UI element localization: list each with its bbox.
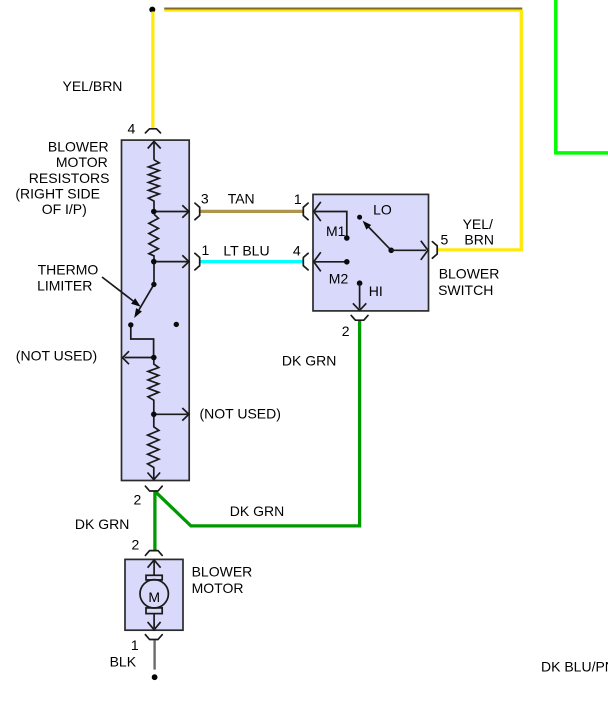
svg-text:MOTOR: MOTOR xyxy=(192,580,244,596)
resistor R4 element (zigzag 4) xyxy=(148,414,159,479)
switch block body xyxy=(313,194,429,311)
connector pin 2 resistor (bottom) xyxy=(145,486,162,491)
connector pin 2 switch (bottom) xyxy=(351,315,368,320)
svg-text:2: 2 xyxy=(132,537,140,553)
svg-text:2: 2 xyxy=(342,323,350,339)
svg-text:OF I/P): OF I/P) xyxy=(42,201,87,217)
connector pin 4 resistor (top) xyxy=(145,129,160,133)
node splice S1 (top junction dot) xyxy=(149,7,155,13)
pin 3 tap arrow xyxy=(154,211,188,213)
switch wiper arm xyxy=(369,227,392,250)
svg-text:HI: HI xyxy=(369,283,383,299)
svg-text:M2: M2 xyxy=(329,271,349,287)
switch M2 contact xyxy=(314,252,347,271)
svg-text:BLOWER: BLOWER xyxy=(48,138,109,154)
switch M1 contact xyxy=(314,202,347,238)
motor block body xyxy=(125,559,183,630)
motor exit arrow xyxy=(153,614,155,628)
svg-text:5: 5 xyxy=(441,231,449,247)
wire YEL/BRN right drop to switch pin 5 xyxy=(438,10,521,250)
svg-text:3: 3 xyxy=(201,190,209,206)
wire BLK motor pin 1 xyxy=(153,640,155,669)
svg-text:RESISTORS: RESISTORS xyxy=(29,170,110,186)
thermo limiter blade xyxy=(139,284,154,309)
connector pin 1 resistor (right) xyxy=(195,253,200,270)
wire YEL/BRN vertical drop to resistor pin 4 xyxy=(151,12,154,130)
svg-text:4: 4 xyxy=(128,121,136,137)
resistor R3 element (zigzag 3) xyxy=(148,358,159,415)
svg-text:4: 4 xyxy=(293,242,301,258)
svg-text:BLOWER: BLOWER xyxy=(439,266,500,282)
svg-text:LO: LO xyxy=(373,202,392,218)
switch HI contact xyxy=(357,280,363,286)
resistor R2 element (zigzag 2) xyxy=(149,214,159,261)
resistor block body xyxy=(122,140,190,480)
motor M1 symbol: feed arrow xyxy=(140,560,168,630)
connector pin 1 motor (bottom) xyxy=(145,635,162,640)
pin 2 bottom arrow xyxy=(148,473,161,480)
switch LO contact dot xyxy=(357,215,362,220)
connector pin 2 motor (top) xyxy=(145,551,162,556)
svg-text:1: 1 xyxy=(131,637,139,653)
wire YEL/BRN horizontal top (brown tracer) xyxy=(164,8,522,10)
svg-text:YEL/: YEL/ xyxy=(463,216,493,232)
svg-text:1: 1 xyxy=(294,191,302,207)
svg-text:M: M xyxy=(148,589,160,605)
connector pin 5 switch (right) xyxy=(432,242,437,259)
svg-text:DK GRN: DK GRN xyxy=(282,353,336,369)
motor brush bottom xyxy=(146,608,162,614)
svg-text:BRN: BRN xyxy=(464,231,494,247)
wire YEL/BRN horizontal top (yellow) xyxy=(164,10,522,12)
thermo limiter label pointer xyxy=(102,277,133,301)
node splice S2 (bottom dot) xyxy=(152,674,158,680)
connector pin 4 switch (left) xyxy=(303,253,308,270)
motor armature circle xyxy=(140,580,168,608)
svg-text:2: 2 xyxy=(134,491,142,507)
wire TAN resistor pin 3 to switch pin 1 xyxy=(200,210,303,213)
thermo limiter feed xyxy=(153,262,155,285)
svg-text:(NOT USED): (NOT USED) xyxy=(16,347,97,363)
node unused terminal dot xyxy=(174,322,179,327)
switch pin 5 output arrow xyxy=(391,241,428,260)
resistor R1 element (zigzag 1) xyxy=(148,160,159,212)
svg-text:1: 1 xyxy=(202,242,210,258)
svg-text:(NOT USED): (NOT USED) xyxy=(200,406,281,422)
svg-text:DK BLU/PNK: DK BLU/PNK xyxy=(541,659,608,675)
node junction dots in resistor block xyxy=(151,209,157,215)
pin 1 tap arrow xyxy=(154,261,188,263)
svg-text:DK GRN: DK GRN xyxy=(75,516,129,532)
svg-text:BLK: BLK xyxy=(110,654,137,670)
(not used) right arrow xyxy=(154,413,188,415)
svg-text:SWITCH: SWITCH xyxy=(438,282,493,298)
svg-text:YEL/BRN: YEL/BRN xyxy=(63,78,123,94)
connector pin 1 switch (left) xyxy=(303,203,308,220)
svg-text:THERMO: THERMO xyxy=(38,261,99,277)
connector pin 3 resistor (right) xyxy=(195,203,200,220)
svg-text:MOTOR: MOTOR xyxy=(56,154,108,170)
resistor R1 top feed arrow xyxy=(148,141,161,148)
motor brush top xyxy=(146,575,162,580)
wire DK GRN resistor pin 2 to blower motor pin 2 xyxy=(153,491,156,551)
svg-text:TAN: TAN xyxy=(228,190,255,206)
wire DK GRN switch pin 2 to resistor pin 2 xyxy=(156,321,360,526)
svg-text:(RIGHT SIDE: (RIGHT SIDE xyxy=(15,186,100,202)
thermo limiter blade arrowhead xyxy=(134,308,142,318)
thermo limiter lower path xyxy=(131,325,154,358)
(not used) left arrow xyxy=(125,357,154,359)
svg-text:BLOWER: BLOWER xyxy=(192,564,253,580)
svg-text:LIMITER: LIMITER xyxy=(37,278,92,294)
wire LT GRN corner (top right) xyxy=(556,0,608,153)
svg-text:LT BLU: LT BLU xyxy=(223,242,269,258)
svg-text:DK GRN: DK GRN xyxy=(230,503,284,519)
wire LT BLU resistor pin 1 to switch pin 4 xyxy=(200,260,303,263)
svg-text:M1: M1 xyxy=(326,223,346,239)
